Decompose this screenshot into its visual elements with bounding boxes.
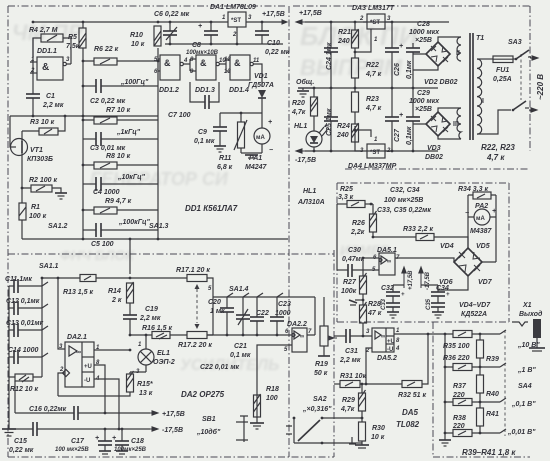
svg-text:R29: R29 bbox=[342, 397, 355, 404]
resistor R15 13k bbox=[58, 371, 153, 397]
svg-text:+: + bbox=[446, 292, 450, 298]
svg-text:R39: R39 bbox=[486, 356, 499, 363]
wire R22 to 0V bbox=[354, 78, 356, 88]
wire node row 116 bbox=[10, 115, 158, 117]
capacitor C31 2,2mk bbox=[334, 329, 372, 364]
svg-text:„×0,316": „×0,316" bbox=[302, 406, 332, 413]
svg-text:*SТ: *SТ bbox=[370, 20, 380, 26]
svg-text:R21: R21 bbox=[338, 29, 351, 36]
resistor R39 bbox=[477, 334, 499, 367]
capacitor C26 0,1mk bbox=[385, 22, 413, 88]
wire DA5.1 out to bridge bbox=[395, 258, 454, 262]
svg-text:С20: С20 bbox=[208, 299, 221, 306]
svg-text:SA1.4: SA1.4 bbox=[229, 286, 249, 293]
gate DD1.1 bbox=[30, 48, 70, 80]
svg-text:С27: С27 bbox=[394, 128, 401, 142]
svg-text:С35: С35 bbox=[426, 298, 432, 310]
gate DD1.3 bbox=[190, 55, 226, 94]
switch SA1.4 bbox=[213, 286, 290, 297]
svg-text:R7 10 к: R7 10 к bbox=[106, 107, 131, 114]
svg-text:240: 240 bbox=[337, 38, 350, 45]
svg-text:∞: ∞ bbox=[300, 334, 304, 340]
svg-text:„10кГц": „10кГц" bbox=[117, 174, 146, 181]
svg-text:+17,5В: +17,5В bbox=[162, 411, 185, 418]
svg-text:R39–R41 1,8 к: R39–R41 1,8 к bbox=[462, 448, 516, 457]
svg-text:-17,5В: -17,5В bbox=[162, 427, 183, 434]
svg-text:R24: R24 bbox=[337, 123, 350, 130]
connector X1 jack bbox=[512, 302, 545, 351]
wire R8 row bbox=[83, 164, 158, 166]
svg-text:ГД507А: ГД507А bbox=[248, 82, 274, 89]
svg-text:„1кГц": „1кГц" bbox=[116, 129, 141, 136]
svg-text:∞: ∞ bbox=[381, 334, 385, 340]
supply arrow -17,5 up bbox=[419, 267, 431, 290]
capacitor C12 0,1mk bbox=[6, 298, 42, 315]
bridge VD3 DB02 bbox=[413, 108, 461, 161]
svg-text:12: 12 bbox=[224, 57, 231, 63]
resistor R6 22k bbox=[94, 46, 119, 65]
capacitor C28 1000mk bbox=[399, 21, 440, 88]
wire R6 row bbox=[83, 60, 158, 62]
svg-text:0,1 мк: 0,1 мк bbox=[230, 352, 251, 359]
svg-text:2,2 мк: 2,2 мк bbox=[139, 315, 161, 322]
svg-text:HL1: HL1 bbox=[303, 188, 316, 195]
svg-text:М4387: М4387 bbox=[470, 228, 493, 235]
wire DA5.1 pin6 from R27 bbox=[363, 257, 379, 259]
svg-text:R36 220: R36 220 bbox=[443, 355, 470, 362]
svg-text:мА: мА bbox=[256, 135, 265, 141]
svg-text:R14: R14 bbox=[108, 288, 121, 295]
svg-text:+: + bbox=[399, 43, 403, 50]
svg-text:0,1мк: 0,1мк bbox=[406, 60, 413, 79]
wire DD1.4 out bbox=[253, 64, 262, 87]
pot R17.2 20k bbox=[170, 297, 213, 349]
svg-text:мА: мА bbox=[476, 216, 485, 222]
svg-text:2,2 мк: 2,2 мк bbox=[42, 102, 64, 109]
svg-text:&: & bbox=[200, 58, 207, 68]
svg-text:SA3: SA3 bbox=[508, 39, 522, 46]
svg-text:R12 10 к: R12 10 к bbox=[10, 386, 39, 393]
resistor R20 4,7k bbox=[291, 88, 318, 116]
switch SA4 contacts bbox=[500, 330, 532, 436]
svg-text:100 мк×25В: 100 мк×25В bbox=[384, 197, 423, 204]
capacitor C4 row + tap 10kHz bbox=[83, 174, 158, 191]
svg-text:DD1.3: DD1.3 bbox=[195, 87, 215, 94]
wire main input row bbox=[207, 334, 292, 336]
resistor R14 2k bbox=[108, 282, 134, 304]
svg-text:+: + bbox=[112, 435, 116, 442]
svg-text:„0,1 В": „0,1 В" bbox=[511, 401, 536, 408]
resistor R33 2,2k bbox=[372, 226, 468, 248]
svg-text:DA3 LM317Т: DA3 LM317Т bbox=[352, 5, 395, 12]
svg-text:R2 100 к: R2 100 к bbox=[29, 177, 58, 184]
svg-text:&: & bbox=[234, 58, 241, 68]
svg-text:КД522А: КД522А bbox=[461, 311, 487, 318]
resistor R32 51k bbox=[398, 333, 429, 399]
svg-text:R38: R38 bbox=[453, 415, 466, 422]
ground R11 PA1 bbox=[241, 153, 262, 158]
svg-text:С6 0,22 мк: С6 0,22 мк bbox=[154, 11, 190, 18]
svg-text:4,7 к: 4,7 к bbox=[486, 153, 505, 162]
svg-text:С5 100: С5 100 bbox=[91, 241, 114, 248]
svg-text:VD1: VD1 bbox=[254, 73, 268, 80]
switch SA3 upper bbox=[508, 39, 531, 60]
pot R19 50k bbox=[314, 297, 337, 377]
svg-text:R10: R10 bbox=[130, 32, 143, 39]
svg-text:*SТ: *SТ bbox=[231, 18, 241, 24]
transformer T1 bbox=[453, 33, 484, 140]
svg-text:-U: -U bbox=[387, 347, 393, 353]
svg-text:R31 10к: R31 10к bbox=[340, 373, 367, 380]
svg-text:R5: R5 bbox=[68, 34, 77, 41]
svg-text:+: + bbox=[401, 292, 405, 298]
svg-text:13: 13 bbox=[224, 69, 231, 75]
label R22 R23 bbox=[481, 143, 515, 162]
svg-text:VD7: VD7 bbox=[478, 279, 493, 286]
svg-text:R9 4,7 к: R9 4,7 к bbox=[105, 198, 132, 205]
capacitor C25 1mk bbox=[324, 88, 338, 151]
trim resistor R11 6,8k bbox=[217, 113, 247, 171]
ATTENUATOR BLOCK bbox=[439, 302, 545, 457]
svg-text:-17,5В: -17,5В bbox=[425, 271, 431, 290]
capacitor C2 row + tap 100Hz bbox=[83, 79, 158, 93]
svg-text:С8: С8 bbox=[192, 42, 201, 49]
arrow 220V upper bbox=[530, 56, 538, 60]
svg-text:+U: +U bbox=[387, 339, 395, 345]
resistor R24 240 bbox=[336, 112, 359, 142]
resistor R27 100k bbox=[341, 258, 367, 305]
resistor R13 1,5k bbox=[63, 275, 130, 297]
svg-text:SA4: SA4 bbox=[518, 383, 532, 390]
svg-text:С28: С28 bbox=[417, 21, 430, 28]
ground R27/R28 node bbox=[349, 300, 363, 305]
resistor R31 10k bbox=[334, 373, 402, 388]
resistor R28 47k bbox=[360, 301, 382, 335]
wire bridge bottom bbox=[438, 276, 468, 290]
svg-text:R18: R18 bbox=[266, 386, 279, 393]
svg-text:×25В: ×25В bbox=[415, 106, 432, 113]
svg-text:С25 1мк: С25 1мк bbox=[326, 108, 333, 136]
gate DD1.2 bbox=[154, 55, 188, 94]
svg-text:DA2.1: DA2.1 bbox=[67, 334, 87, 341]
wire DD1.2-DD1.3 bbox=[183, 59, 196, 71]
opamp DA5.1 bbox=[372, 247, 400, 275]
node top rail dots bbox=[32, 21, 35, 24]
svg-text:-17,5В: -17,5В bbox=[295, 157, 316, 164]
svg-text:„1 В": „1 В" bbox=[517, 367, 536, 374]
label VD4-VD7 KD522A bbox=[459, 302, 491, 318]
svg-text:С32: С32 bbox=[381, 285, 394, 292]
svg-text:DA2.2: DA2.2 bbox=[287, 321, 307, 328]
SA3 link dashed bbox=[520, 54, 522, 100]
resistor R29 4,7k bbox=[340, 383, 366, 413]
svg-text:I: I bbox=[482, 98, 484, 105]
svg-text:EL1: EL1 bbox=[157, 350, 170, 357]
svg-text:С22: С22 bbox=[256, 310, 269, 317]
svg-text:100мк×25В: 100мк×25В bbox=[114, 447, 147, 453]
svg-text:С29: С29 bbox=[417, 90, 430, 97]
capacitor C15 0,22mk bbox=[9, 422, 150, 454]
wire R2 bbox=[22, 188, 61, 193]
capacitor C18 100mk bbox=[112, 428, 147, 454]
resistor R23 4,7k bbox=[352, 88, 382, 112]
svg-text:&: & bbox=[164, 58, 171, 68]
svg-text:0,1 мк: 0,1 мк bbox=[194, 138, 215, 145]
svg-text:С21: С21 bbox=[234, 343, 247, 350]
-17,5V rail bbox=[295, 149, 438, 164]
capacitor C16 0,22mk bbox=[15, 406, 150, 420]
svg-text:DA5: DA5 bbox=[402, 408, 419, 417]
svg-text:4,7к: 4,7к bbox=[291, 109, 306, 116]
svg-text:50 к: 50 к bbox=[314, 370, 328, 377]
svg-text:С19: С19 bbox=[145, 306, 158, 313]
wire bottom rail bbox=[22, 238, 288, 240]
svg-text:TL082: TL082 bbox=[396, 420, 420, 429]
svg-text:II: II bbox=[456, 50, 460, 57]
svg-text:С12 0,1мк: С12 0,1мк bbox=[6, 298, 40, 305]
wire SA2 row bbox=[322, 411, 362, 418]
svg-text:С15: С15 bbox=[14, 438, 27, 445]
capacitor C20 1mk bbox=[208, 297, 234, 335]
resistor R8 10k bbox=[94, 153, 131, 169]
svg-text:11: 11 bbox=[253, 58, 260, 64]
wire DA5.2 pin2 bbox=[366, 348, 372, 384]
capacitors C34 C35 bbox=[421, 285, 450, 318]
svg-text:47 к: 47 к bbox=[367, 310, 382, 317]
regulator DA4 LM337MP bbox=[348, 126, 397, 170]
svg-text:С16 0,22мк: С16 0,22мк bbox=[29, 406, 67, 413]
svg-text:HL1: HL1 bbox=[294, 123, 307, 130]
svg-text:„10дб": „10дб" bbox=[196, 428, 221, 436]
capacitor C24 1mk bbox=[324, 22, 338, 88]
wire DA2.1 pin4 bbox=[94, 379, 119, 429]
svg-text:VD3: VD3 bbox=[427, 145, 441, 152]
svg-text:*SТ: *SТ bbox=[370, 150, 380, 156]
ground bottom left bbox=[2, 429, 16, 436]
capacitor C19 2,2mk bbox=[123, 303, 161, 335]
resistor R41 bbox=[477, 402, 499, 433]
svg-text:С24 1мк: С24 1мк bbox=[326, 42, 333, 70]
svg-text:М4247: М4247 bbox=[245, 164, 268, 171]
svg-text:0,1мк: 0,1мк bbox=[406, 126, 413, 145]
svg-text:КП303Б: КП303Б bbox=[27, 156, 53, 163]
svg-text:R40: R40 bbox=[486, 391, 499, 398]
svg-text:100 к: 100 к bbox=[29, 213, 47, 220]
svg-text:DA5.2: DA5.2 bbox=[377, 355, 397, 362]
svg-text:100: 100 bbox=[266, 395, 278, 402]
wire DA2.1 pin3 bbox=[58, 278, 65, 349]
svg-text:SA2: SA2 bbox=[313, 396, 327, 403]
svg-text:Выход: Выход bbox=[519, 310, 543, 318]
svg-text:С10: С10 bbox=[267, 40, 280, 47]
DA5.2 SECTION bbox=[286, 328, 453, 448]
wire R7 row bbox=[83, 119, 158, 121]
svg-text:С2 0,22 мк: С2 0,22 мк bbox=[90, 98, 126, 105]
scan bleed-through ghosts (decorative) bbox=[12, 20, 419, 374]
regulator DA1 LM78L09 bbox=[210, 4, 256, 44]
diode VD1 GD507A bbox=[248, 73, 274, 113]
resistor R26 2,2k bbox=[350, 204, 377, 237]
arrow +17,5 supply bbox=[150, 411, 185, 418]
svg-text:R1: R1 bbox=[31, 204, 40, 211]
svg-text:VD2 DВ02: VD2 DВ02 bbox=[424, 79, 458, 86]
resistor R30 10k bbox=[359, 418, 385, 445]
svg-text:7,5к: 7,5к bbox=[66, 43, 80, 50]
svg-text:С32, С34: С32, С34 bbox=[390, 187, 420, 194]
wire R9 row bbox=[83, 209, 158, 211]
wire SA1.1 bus bbox=[41, 278, 43, 377]
svg-text:-U: -U bbox=[84, 378, 90, 384]
svg-text:„100Гц": „100Гц" bbox=[120, 79, 149, 86]
label DA5 TL082 bbox=[396, 408, 420, 429]
ground attenuator bbox=[439, 440, 451, 446]
PSU BLOCK bbox=[291, 5, 545, 170]
wire DA2.1 pin2 bbox=[58, 373, 65, 396]
svg-text:С18: С18 bbox=[131, 438, 144, 445]
svg-text:1000 мкх: 1000 мкх bbox=[409, 29, 440, 36]
svg-text:R23: R23 bbox=[366, 96, 379, 103]
button SB1 10db bbox=[196, 416, 248, 442]
svg-text:10 к: 10 к bbox=[131, 41, 145, 48]
label Obsh bbox=[296, 78, 314, 97]
svg-text:VD4: VD4 bbox=[440, 243, 454, 250]
wire DD1.1 inputs bbox=[30, 38, 33, 73]
svg-text:0,47мк: 0,47мк bbox=[342, 256, 365, 263]
wire DA3 adj bbox=[355, 22, 371, 58]
resistor R2 100k bbox=[29, 177, 58, 192]
BLOCK A : oscillator bbox=[10, 11, 288, 248]
pot R17.1 20k bbox=[130, 267, 213, 329]
resistor R25 3,3k bbox=[337, 186, 373, 208]
svg-text:+17,5В: +17,5В bbox=[408, 270, 414, 290]
svg-text:R30: R30 bbox=[372, 425, 385, 432]
arrow 220V lower bbox=[529, 108, 537, 112]
capacitor C6 0,22mk bbox=[154, 11, 190, 44]
capacitor C22 0,01mk bbox=[200, 297, 269, 371]
BLOCK A2 : gates / regulator row bbox=[154, 4, 290, 171]
capacitor C5 row + tap 100kHz bbox=[83, 219, 158, 237]
wire DA2.2 pin5 bbox=[257, 345, 292, 418]
svg-text:С33: С33 bbox=[381, 298, 387, 310]
svg-text:0,22 мк: 0,22 мк bbox=[9, 447, 34, 454]
svg-text:4,7 к: 4,7 к bbox=[365, 105, 382, 112]
svg-text:R11: R11 bbox=[219, 155, 231, 162]
wire VT1 gate bbox=[10, 116, 11, 147]
svg-text:R22: R22 bbox=[366, 62, 379, 69]
resistor R22 4,7k bbox=[352, 58, 382, 78]
svg-text:0,25А: 0,25А bbox=[493, 76, 512, 83]
wire DA5.2 out bbox=[394, 333, 453, 335]
wire drop from osc rail bbox=[129, 239, 131, 274]
opamp DA2.2 bbox=[284, 321, 312, 353]
resistor R7 10k bbox=[94, 107, 131, 124]
svg-text:ФНЧ БЛОК: ФНЧ БЛОК bbox=[60, 247, 135, 263]
svg-text:0,22 мк: 0,22 мк bbox=[265, 49, 290, 56]
wire left col to rails bbox=[9, 377, 15, 429]
svg-text:R28: R28 bbox=[368, 301, 381, 308]
resistor R1 100k bbox=[19, 203, 47, 220]
svg-text:DA2 ОР275: DA2 ОР275 bbox=[181, 390, 225, 399]
svg-text:+: + bbox=[95, 435, 99, 442]
svg-text:R22, R23: R22, R23 bbox=[481, 143, 515, 152]
svg-text:С3 0,01 мк: С3 0,01 мк bbox=[90, 145, 126, 152]
capacitors C32 C33 bbox=[381, 285, 405, 318]
svg-text:&: & bbox=[42, 62, 49, 73]
fuse FU1 0,25A bbox=[477, 56, 513, 83]
lamp EL1 OEP-2 bbox=[136, 334, 175, 375]
capacitor C9 0,1mk bbox=[194, 113, 227, 146]
svg-text:SA1.2: SA1.2 bbox=[48, 223, 68, 230]
wire 0V rail blockA bbox=[165, 43, 283, 45]
svg-text:240: 240 bbox=[336, 132, 349, 139]
svg-text:×25В: ×25В bbox=[415, 37, 432, 44]
svg-text:DD1.4: DD1.4 bbox=[229, 87, 249, 94]
wire cap left bus bbox=[8, 286, 10, 377]
svg-text:DA4 LM337МР: DA4 LM337МР bbox=[348, 163, 397, 170]
svg-text:2 к: 2 к bbox=[111, 297, 122, 304]
gate DD1.4 bbox=[224, 55, 260, 94]
svg-text:+: + bbox=[399, 112, 403, 119]
svg-text:2: 2 bbox=[232, 32, 237, 38]
label HL1 AL310A bbox=[297, 188, 325, 206]
wire attenuator left bus bbox=[444, 334, 446, 440]
svg-text:R3 10 к: R3 10 к bbox=[30, 119, 55, 126]
svg-text:SA1.3: SA1.3 bbox=[149, 223, 169, 230]
wire left ladder bus bbox=[82, 22, 84, 239]
svg-text:С30: С30 bbox=[348, 247, 361, 254]
svg-text:1000 мкх: 1000 мкх bbox=[409, 98, 440, 105]
wire R25 left stub bbox=[336, 204, 338, 270]
wire meter row bbox=[220, 112, 262, 114]
svg-text:4,7 к: 4,7 к bbox=[365, 71, 382, 78]
svg-text:R17.1 20 к: R17.1 20 к bbox=[176, 267, 210, 274]
svg-text:С7 100: С7 100 bbox=[168, 112, 191, 119]
svg-text:VD4–VD7: VD4–VD7 bbox=[459, 302, 491, 309]
svg-text:4,7к: 4,7к bbox=[340, 406, 355, 413]
svg-text:R13 1,5 к: R13 1,5 к bbox=[63, 289, 93, 296]
AUDIO BLOCK (lower-left) bbox=[2, 238, 337, 454]
meter PA2 M4387 bbox=[465, 195, 496, 262]
svg-text:R20: R20 bbox=[292, 100, 305, 107]
svg-text:~220 В: ~220 В bbox=[536, 74, 545, 100]
capacitor C23 1000 bbox=[270, 297, 291, 335]
svg-text:„0,01 В": „0,01 В" bbox=[507, 429, 536, 436]
svg-text:С4 1000: С4 1000 bbox=[93, 189, 120, 196]
svg-text:VT1: VT1 bbox=[30, 147, 43, 154]
resistor R3 10k bbox=[30, 119, 58, 135]
wire DD1.3-DD1.4 bbox=[219, 59, 230, 71]
capacitor C7 100 bbox=[168, 82, 219, 119]
resistor R38 220 bbox=[444, 415, 500, 437]
svg-text:С23: С23 bbox=[278, 301, 291, 308]
svg-text:R4 2,7 М: R4 2,7 М bbox=[29, 27, 58, 34]
svg-text:Т1: Т1 bbox=[476, 35, 484, 42]
ground R2 bbox=[55, 193, 67, 199]
capacitor C30 0,47mk bbox=[337, 247, 379, 277]
resistor R16 1,5k bbox=[130, 325, 172, 339]
wire DA2.2 out bbox=[290, 297, 315, 335]
svg-text:ГЕНЕРАТОР СИ: ГЕНЕРАТОР СИ bbox=[90, 169, 229, 189]
svg-text:FU1: FU1 bbox=[496, 67, 509, 74]
svg-text:С9: С9 bbox=[198, 129, 207, 136]
opamp DA2.1 bbox=[59, 334, 100, 387]
small ground stub left of R30 bbox=[349, 437, 356, 444]
svg-text:−: − bbox=[269, 147, 273, 154]
arrow -17,5 supply bbox=[150, 427, 183, 434]
svg-text:R41: R41 bbox=[486, 411, 499, 418]
svg-text:+17,5В: +17,5В bbox=[299, 10, 322, 17]
arrow +17,5V out bbox=[279, 20, 287, 24]
